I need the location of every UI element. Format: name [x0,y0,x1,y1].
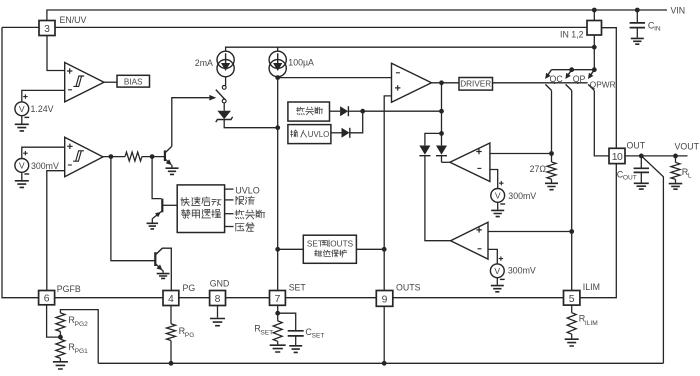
resistor R1 (base resistor) [125,152,142,161]
wire: R1 to Q1 base [142,156,165,158]
wire: U2 + input to 300mV reference [22,147,65,158]
ground for Q1 emitter [171,165,173,168]
svg-text:SET: SET [289,283,307,293]
capacitor C_SET [278,313,296,331]
transistor Q3 (disable) [161,199,163,213]
wire: chip boundary top segment pin3 to IN box [55,26,587,28]
wire: logic block stub current limit [225,199,234,201]
svg-text:UVLO: UVLO [235,185,260,195]
svg-text:2mA: 2mA [195,58,213,68]
resistor R_L [675,156,677,163]
diode D4 (to ILIM amp) [419,146,430,155]
wire: chip boundary bottom pin8-pin4 [179,297,210,299]
pin box IN 1,2 [587,21,602,36]
ground for Q2 emitter [161,270,164,273]
node: diode OR junction [360,109,365,114]
ground for U4 300mV ref [497,202,499,209]
wire: OUT pin to VOUT [625,155,688,157]
svg-text:QC: QC [550,74,564,84]
wire: IN internal bus [593,35,595,70]
svg-text:OUTS: OUTS [396,283,421,293]
wire: 2mA source to switch [225,77,227,86]
svg-text:PG: PG [185,332,195,339]
node: VIN to IN pin junction [592,8,597,13]
wire: Q1 base node down to Q3 [152,157,161,199]
wire: chip boundary right segment pin10 to bottom [580,164,616,298]
node: zener to SET line junction [275,125,280,130]
svg-text:PG1: PG1 [75,348,89,355]
wire: UVLO block to diode D3 [331,132,342,134]
transistor QPWR [589,70,594,77]
capacitor C_IN [636,10,638,23]
wire: chip boundary bottom pin9-pin7 [285,297,376,299]
label xian liu (current limit) [236,196,244,204]
node: R_SET C_SET junction [275,311,280,316]
node: QPWR emitter junction [592,67,597,72]
ground for R_L [669,184,683,190]
svg-text:27Ω: 27Ω [530,164,547,174]
wire: Q2 collector to PG pin 4 [155,248,171,290]
wire: QP collector down to ILIM [571,90,573,290]
svg-text:100µA: 100µA [288,57,314,67]
diode D3 (input UVLO) [342,128,350,138]
op-amp U4 (reverse current comparator) [450,143,490,182]
wire: emitter bus [552,69,595,71]
voltage source 300mV (U5 ref) [490,264,504,278]
svg-text:4: 4 [168,294,174,305]
wire: VIN rail [47,10,667,21]
svg-text:QP: QP [573,74,586,84]
ground for R_SET [270,345,286,352]
transistor Q1 (fast-start NPN) [164,150,166,161]
node: clamp to OUTS junction [382,247,387,252]
wire: QC collector [551,90,553,153]
wire: logic block stub thermal [225,213,234,215]
svg-text:6: 6 [44,294,50,305]
wire: U4 output to diode D5 [442,161,450,163]
svg-text:V: V [494,266,500,276]
node: thermal clamp junction [439,109,444,114]
wire: pin3 to comparator U1 + input [47,36,65,71]
wire: chip boundary bottom pin4-pin6 [55,297,163,299]
current source 2mA [217,51,234,68]
svg-text:5: 5 [569,294,575,305]
node: PGFB divider junction [58,335,63,340]
pin box 10 OUT [609,148,625,163]
pin box 9 OUTS [376,291,393,307]
wire: chip boundary right segment from IN box down to pin 10 [602,28,617,149]
svg-text:8: 8 [215,294,221,305]
wire: pin6 to R_PG2/R_PG1 junction [47,305,61,337]
resistor R_ILIM [571,305,573,313]
wire: SET line to clamp block [278,248,304,250]
resistor R_PG1 [59,337,61,339]
voltage source 1.24V [15,102,29,116]
wire: R_PG2 top to bottom rail [60,310,98,364]
svg-text:OUT: OUT [627,140,646,150]
svg-text:DRIVER: DRIVER [460,79,491,88]
svg-text:BIAS: BIAS [124,77,143,86]
current source 100uA [269,51,286,68]
resistor R_SET [273,321,282,341]
block fast-start disable logic [177,185,224,233]
op-amp U5 (current limit) [451,222,488,259]
pin box 3 EN/UV [39,21,55,36]
wire: U5 + input to ILIM line [488,231,572,233]
wire: logic block input stub UVLO [225,188,234,190]
wire: thermal block to diode D2 [330,110,341,112]
node: OUTS sense junction [382,361,387,366]
node: VOUT / R_L junction [673,154,678,159]
wire: QPWR collector to OUT pin [594,90,609,155]
block DRIVER [459,78,493,91]
ground for R_PG1 [53,362,68,369]
label re guan duan (thermal shutdown) [235,210,244,219]
svg-text:PG: PG [183,283,196,293]
pin box 7 SET [270,291,286,306]
svg-text:VIN: VIN [671,5,686,15]
svg-text:PGFB: PGFB [57,284,81,294]
wire: 100uA top lead [277,47,279,51]
svg-text:300mV: 300mV [508,191,536,201]
svg-text:IN 1,2: IN 1,2 [560,29,584,39]
svg-text:ILIM: ILIM [585,320,598,327]
wire: D3 to diode OR junction [350,111,363,133]
node: VIN to CIN junction [635,8,640,13]
capacitor C_OUT [640,156,642,168]
svg-text:OUTS: OUTS [330,240,353,249]
svg-text:SET: SET [307,240,323,249]
pin box 8 GND [210,291,226,306]
switch SW1 (fast charge) [222,86,226,90]
svg-text:ILIM: ILIM [583,282,600,292]
wire: U5 - input to 300mV [488,249,497,264]
comparator U1 (EN/UV, hysteresis) [65,63,104,102]
wire: U2 - input from PGFB pin 6 [47,171,65,291]
wire: chip boundary left edge [2,27,39,297]
svg-text:UVLO: UVLO [308,130,330,139]
wire: U2 output [103,156,125,158]
wire: chip boundary top-left segment [2,26,39,28]
svg-text:9: 9 [382,294,388,305]
zener diode D1 [217,111,231,119]
wire: U4 + input to QC collector [490,153,552,155]
block BIAS [117,75,150,87]
ground for C_OUT [634,183,649,189]
diode D5 (to U4 output) [441,133,443,145]
svg-text:V: V [19,161,25,171]
wire: clamp block to OUTS line [356,248,384,250]
svg-text:L: L [688,173,692,180]
pin box 6 PGFB [39,291,55,305]
svg-text:GND: GND [210,279,230,289]
ground for 300mV PGFB ref [21,172,23,180]
svg-text:SET: SET [312,333,325,340]
voltage source 300mV (U4 ref) [491,189,505,203]
wire: U2 output down to Q2 base [111,157,155,261]
wire: logic block stub dropout [225,226,234,228]
svg-text:OUT: OUT [623,175,637,182]
resistor R_PG2 [56,313,65,332]
svg-text:IN: IN [654,26,661,33]
wire: OUTS feedback to U3 + input [384,96,391,291]
svg-text:V: V [19,104,25,114]
ground for Q3 [151,218,154,223]
wire: gate node to clamp diodes [425,133,442,145]
svg-text:VOUT: VOUT [675,141,700,151]
resistor 27 ohm [551,154,553,163]
node: Q1 base / Q3 branch [150,154,155,159]
wire: Q1 collector up to switch control arrow [172,98,210,147]
block input UVLO (shu ru UVLO) [288,125,331,144]
label ya cha (dropout) [235,224,244,232]
svg-text:300mV: 300mV [31,161,59,171]
svg-text:10: 10 [612,152,623,163]
wire: thermal/UVLO diodes to gate node [363,110,442,112]
transistor QC [547,70,552,77]
block thermal shutdown (re guan duan) [288,102,330,121]
node: QC collector / 27ohm junction [549,151,554,156]
node: SET line to error amp - input [275,75,280,80]
ground for U5 300mV ref [496,278,498,285]
wire: bottom VOUT sense rail [98,362,663,364]
svg-text:QPWR: QPWR [590,80,616,90]
ground for C_IN [631,38,644,44]
node: U2 output branch [109,154,114,159]
wire: D4 to U5 output [425,156,451,241]
node: SET line to clamp block [275,247,280,252]
wire: Q3 base to logic block [163,204,177,206]
svg-text:1.24V: 1.24V [31,104,54,114]
wire: DRIVER output base line to QC/QP/QPWR [493,82,588,84]
node: OUT / C_OUT junction [639,154,644,159]
svg-text:300mV: 300mV [508,266,536,276]
transistor QP [567,70,572,77]
wire: OUTS pin 9 to bottom rail [383,306,385,363]
resistor R_PG [170,306,172,324]
wire: U4 - input to 300mV [490,170,498,189]
wire: switch to zener [223,103,225,111]
wire: U1 - input to 1.24V reference [22,90,65,102]
node: gate node at U3 output [439,80,444,85]
block SET to OUTS clamp protection [303,235,356,263]
wire: pin7 to R_SET/C_SET [277,305,279,321]
wire: U3 output to DRIVER [432,82,460,84]
wire: chip boundary bottom pin7-pin8 [226,297,270,299]
wire: VOUT sense diagonal down to bottom rail [641,156,663,363]
wire: U1 output to BIAS [104,81,117,83]
pin box 4 PG [163,291,179,306]
ground for 27 ohm [545,183,558,189]
op-amp U3 (error amplifier) [392,63,432,102]
ground for 1.24V source [21,116,23,124]
node: diode clamp junction [439,131,444,136]
ground for R_ILIM [565,339,579,346]
wire: zener to SET line [224,120,278,128]
wire: SET line (100uA down to pin 7) [277,77,279,291]
svg-text:SET: SET [260,330,273,337]
transistor Q2 (PG open drain) [154,252,156,266]
svg-text:3: 3 [44,24,50,35]
wire: IN box top lead [593,10,595,21]
node: IN bus junction at IN pin [592,45,597,50]
comparator U2 (PGFB, hysteresis) [65,137,103,177]
ground for pin 8 [217,306,219,318]
svg-text:EN/UV: EN/UV [60,15,87,25]
wire: SET line to error amplifier - input [278,77,392,79]
svg-text:PG2: PG2 [75,321,89,328]
wire: chip boundary bottom pin5-pin9 [393,297,564,299]
diode D2 (thermal shutdown) [340,106,348,116]
pin box 5 ILIM [564,291,580,306]
svg-text:7: 7 [275,294,281,305]
node: ILIM junction [569,229,574,234]
svg-text:V: V [495,191,501,201]
node: R_PG pullup junction [169,361,174,366]
wire: gate node vertical [441,83,443,134]
voltage source 300mV (PGFB ref) [15,159,29,173]
ground for C_SET [289,346,302,353]
node: QP emitter junction [569,67,574,72]
